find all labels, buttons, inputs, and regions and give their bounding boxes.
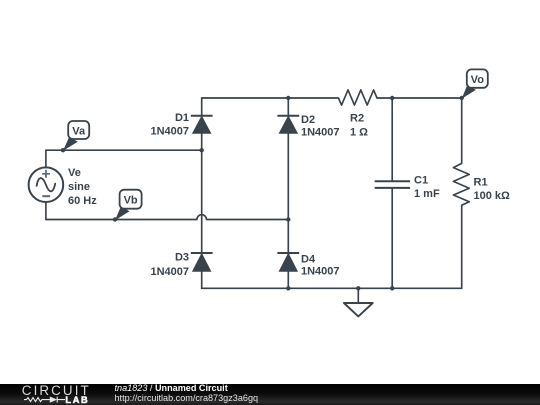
junction dot Vo node: [460, 96, 464, 100]
R2 labels: [350, 113, 368, 139]
wire: Vb horizontal with hop over left bridge wire: [46, 215, 288, 220]
junction dot ground node: [356, 286, 360, 290]
junction dot Vb-bridge: [286, 217, 290, 221]
junction dot C1 bottom: [390, 286, 394, 290]
junction dot Va-bridge: [200, 148, 204, 152]
svg-text:Vb: Vb: [124, 194, 138, 206]
D1 labels: [150, 112, 189, 138]
svg-text:sine: sine: [68, 181, 90, 193]
junction dot Vb anchor: [113, 217, 117, 221]
svg-text:1 mF: 1 mF: [414, 188, 440, 200]
CircuitLab logo text CIRCUIT: [22, 384, 91, 397]
node flag Va: [63, 121, 89, 151]
diode D1: [191, 116, 213, 134]
svg-text:Ve: Ve: [68, 167, 81, 179]
svg-text:1N4007: 1N4007: [150, 266, 189, 278]
wire: source bottom lead: [45, 202, 47, 220]
svg-text:1N4007: 1N4007: [301, 126, 340, 138]
svg-text:Va: Va: [72, 125, 86, 137]
diode D3: [191, 253, 213, 271]
footer title line: [115, 384, 228, 393]
node flag Vb: [115, 190, 142, 221]
svg-text:R2: R2: [350, 113, 364, 125]
diode D4: [277, 253, 299, 271]
svg-text:1N4007: 1N4007: [301, 266, 340, 278]
junction dot C1 top: [390, 96, 394, 100]
ground: [344, 288, 373, 316]
voltage source V1 circle: [29, 167, 64, 202]
resistor R1 zigzag: [453, 163, 469, 205]
svg-text:D4: D4: [301, 254, 316, 266]
D3 labels: [150, 251, 189, 278]
svg-text:Vo: Vo: [471, 74, 485, 86]
svg-text:C1: C1: [414, 174, 428, 186]
wire: top rail from bridge to R2: [202, 97, 339, 99]
source value labels Ve sine 60 Hz: [68, 167, 97, 207]
source minus sign: [42, 195, 50, 197]
source plus sign: [42, 170, 50, 178]
capacitor C1 plates: [375, 181, 410, 188]
wire: top rail from R2 to Vo node: [377, 97, 462, 99]
resistor R2 zigzag: [338, 90, 377, 105]
svg-text:1N4007: 1N4007: [150, 126, 189, 138]
junction dot Va anchor: [61, 148, 65, 152]
wire: left bridge vertical: [201, 98, 203, 288]
svg-text:1 Ω: 1 Ω: [350, 127, 368, 139]
C1 labels: [414, 174, 440, 200]
wire: C1 branch vertical: [391, 98, 393, 288]
wire: bottom rail: [202, 287, 462, 289]
svg-text:R1: R1: [474, 176, 488, 188]
svg-text:D1: D1: [175, 112, 189, 124]
logo resistor zigzag and diode: [0, 384, 110, 405]
R1 labels: [474, 176, 511, 202]
D2 labels: [301, 114, 340, 138]
junction dot D2 top: [286, 96, 290, 100]
wire: R1 branch vertical: [461, 98, 463, 288]
svg-text:100 kΩ: 100 kΩ: [474, 190, 511, 202]
footer bar: [0, 384, 540, 405]
junction dot D4 bottom: [286, 286, 290, 290]
wire: Va horizontal from source to bridge: [46, 149, 202, 151]
wire: right bridge vertical: [287, 98, 289, 288]
node flag Vo: [462, 69, 488, 98]
CircuitLab logo text LAB: [65, 396, 89, 405]
svg-text:D3: D3: [175, 251, 189, 263]
svg-text:D2: D2: [301, 114, 315, 126]
diode D2: [277, 116, 299, 134]
svg-text:60 Hz: 60 Hz: [68, 195, 97, 207]
D4 labels: [301, 254, 340, 278]
footer url line: [115, 394, 259, 403]
wire: source top lead: [45, 150, 47, 167]
